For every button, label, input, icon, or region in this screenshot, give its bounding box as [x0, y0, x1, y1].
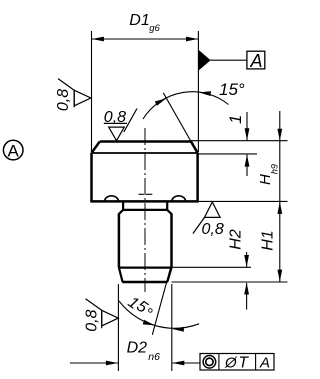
- pin chamfer line: [119, 267, 172, 269]
- dimension D2: right dimension line with arrow: [172, 362, 200, 364]
- pin bottom face: [122, 281, 167, 284]
- svg-text:g6: g6: [149, 23, 160, 34]
- svg-text:0,8: 0,8: [202, 221, 224, 238]
- top 15 deg: arrow on slant line: [155, 96, 168, 106]
- chamfer dimension: lower tail: [246, 283, 248, 310]
- top 15 deg: arc: [143, 92, 229, 119]
- part outline: flange left side: [90, 153, 93, 202]
- dimension D1: right extension line: [197, 31, 199, 152]
- dimension H h9: top arrow (outside, pointing down): [277, 129, 282, 141]
- datum A: leader line: [210, 59, 247, 61]
- dimension H2: arrow: [244, 255, 249, 267]
- dimension D2: left extension line: [117, 284, 119, 371]
- dimension D1: left arrow: [92, 37, 104, 42]
- svg-text:Hh9: Hh9: [257, 164, 280, 185]
- roughness symbol bottom left (rotated): [85, 299, 118, 329]
- view label circle A: [3, 140, 23, 160]
- dimension 1: lower tail: [246, 155, 248, 176]
- datum A: box: [247, 51, 265, 69]
- pin top right chamfer: [167, 210, 171, 214]
- pin left side: [118, 214, 121, 268]
- extension line pin chamfer right: [172, 266, 252, 268]
- extension line flange top right: [198, 153, 257, 155]
- top 15 deg: chamfer extension slant line: [163, 93, 198, 154]
- extension line top face right: [191, 140, 288, 142]
- svg-text:15°: 15°: [219, 80, 245, 99]
- dimension D2: left dimension line with arrow: [70, 362, 118, 364]
- svg-text:0,8: 0,8: [104, 109, 126, 126]
- chamfer dimension: up arrow at pin bottom: [244, 283, 249, 295]
- svg-text:A: A: [259, 355, 270, 372]
- svg-text:0,8: 0,8: [55, 89, 72, 111]
- neck left side: [122, 203, 124, 210]
- dimension H1: bottom arrow (pointing down at pin bottom): [277, 270, 282, 282]
- datum A: filled triangle: [199, 50, 211, 71]
- dimension D1: left extension line: [91, 31, 93, 152]
- dimension 1: dimension line upper tail: [246, 112, 248, 140]
- dimension H1: top arrow (pointing up at flange bottom): [277, 202, 282, 214]
- neck bottom line: [123, 209, 167, 211]
- svg-text:H2: H2: [228, 229, 245, 250]
- bottom 15 deg: arrow at extension line: [172, 327, 184, 332]
- dimension 1: upper arrow: [245, 128, 250, 140]
- part outline: top right chamfer: [191, 142, 198, 153]
- part outline: flange bottom: [90, 200, 199, 203]
- svg-text:Ø: Ø: [224, 355, 238, 372]
- svg-text:D2: D2: [127, 339, 148, 356]
- svg-text:0,8: 0,8: [83, 309, 100, 331]
- dimension D2: right extension line: [171, 284, 173, 371]
- part outline: flange right side: [196, 153, 199, 202]
- roughness symbol left (rotated): [58, 79, 91, 108]
- part outline: flange top edge line: [92, 152, 198, 154]
- dimension 1: lower arrow: [245, 155, 250, 167]
- svg-text:T: T: [239, 355, 250, 372]
- bottom 15 deg: arc: [119, 301, 199, 328]
- svg-text:D1: D1: [129, 12, 149, 29]
- svg-text:H1: H1: [260, 230, 277, 250]
- bottom 15 deg: arrow on slant line: [143, 320, 156, 328]
- dimension H h9 / H1: shared dimension line: [279, 111, 281, 282]
- dimension D1: right arrow: [186, 37, 198, 42]
- part outline: top face: [100, 140, 191, 143]
- undercut arc left: [105, 196, 119, 201]
- neck right side: [166, 203, 168, 210]
- svg-text:A: A: [8, 141, 20, 160]
- dimension H2: dimension line: [246, 252, 248, 267]
- concentricity symbol: [203, 356, 216, 369]
- pin bottom left chamfer: [119, 268, 123, 282]
- svg-text:A: A: [250, 51, 263, 71]
- bottom 15 deg: chamfer extension slant line: [152, 266, 171, 335]
- dimension D1: dimension line: [92, 38, 199, 40]
- undercut arc right: [172, 196, 186, 201]
- pin right side: [170, 214, 173, 268]
- roughness symbol right under flange (rotated 180): [193, 202, 220, 234]
- feature control frame: [200, 354, 274, 371]
- pin bottom right chamfer: [167, 268, 171, 282]
- pin top left chamfer: [119, 210, 123, 214]
- roughness symbol on top face: [104, 109, 137, 141]
- centerline: [144, 128, 146, 292]
- svg-text:n6: n6: [148, 351, 160, 363]
- extension line flange bottom right: [199, 200, 288, 202]
- top 15 deg: arrow at extension line: [199, 90, 211, 96]
- part outline: top left chamfer: [92, 142, 100, 153]
- center cross dash: [139, 193, 145, 195]
- svg-text:1: 1: [227, 115, 245, 124]
- extension line pin bottom right: [172, 281, 288, 283]
